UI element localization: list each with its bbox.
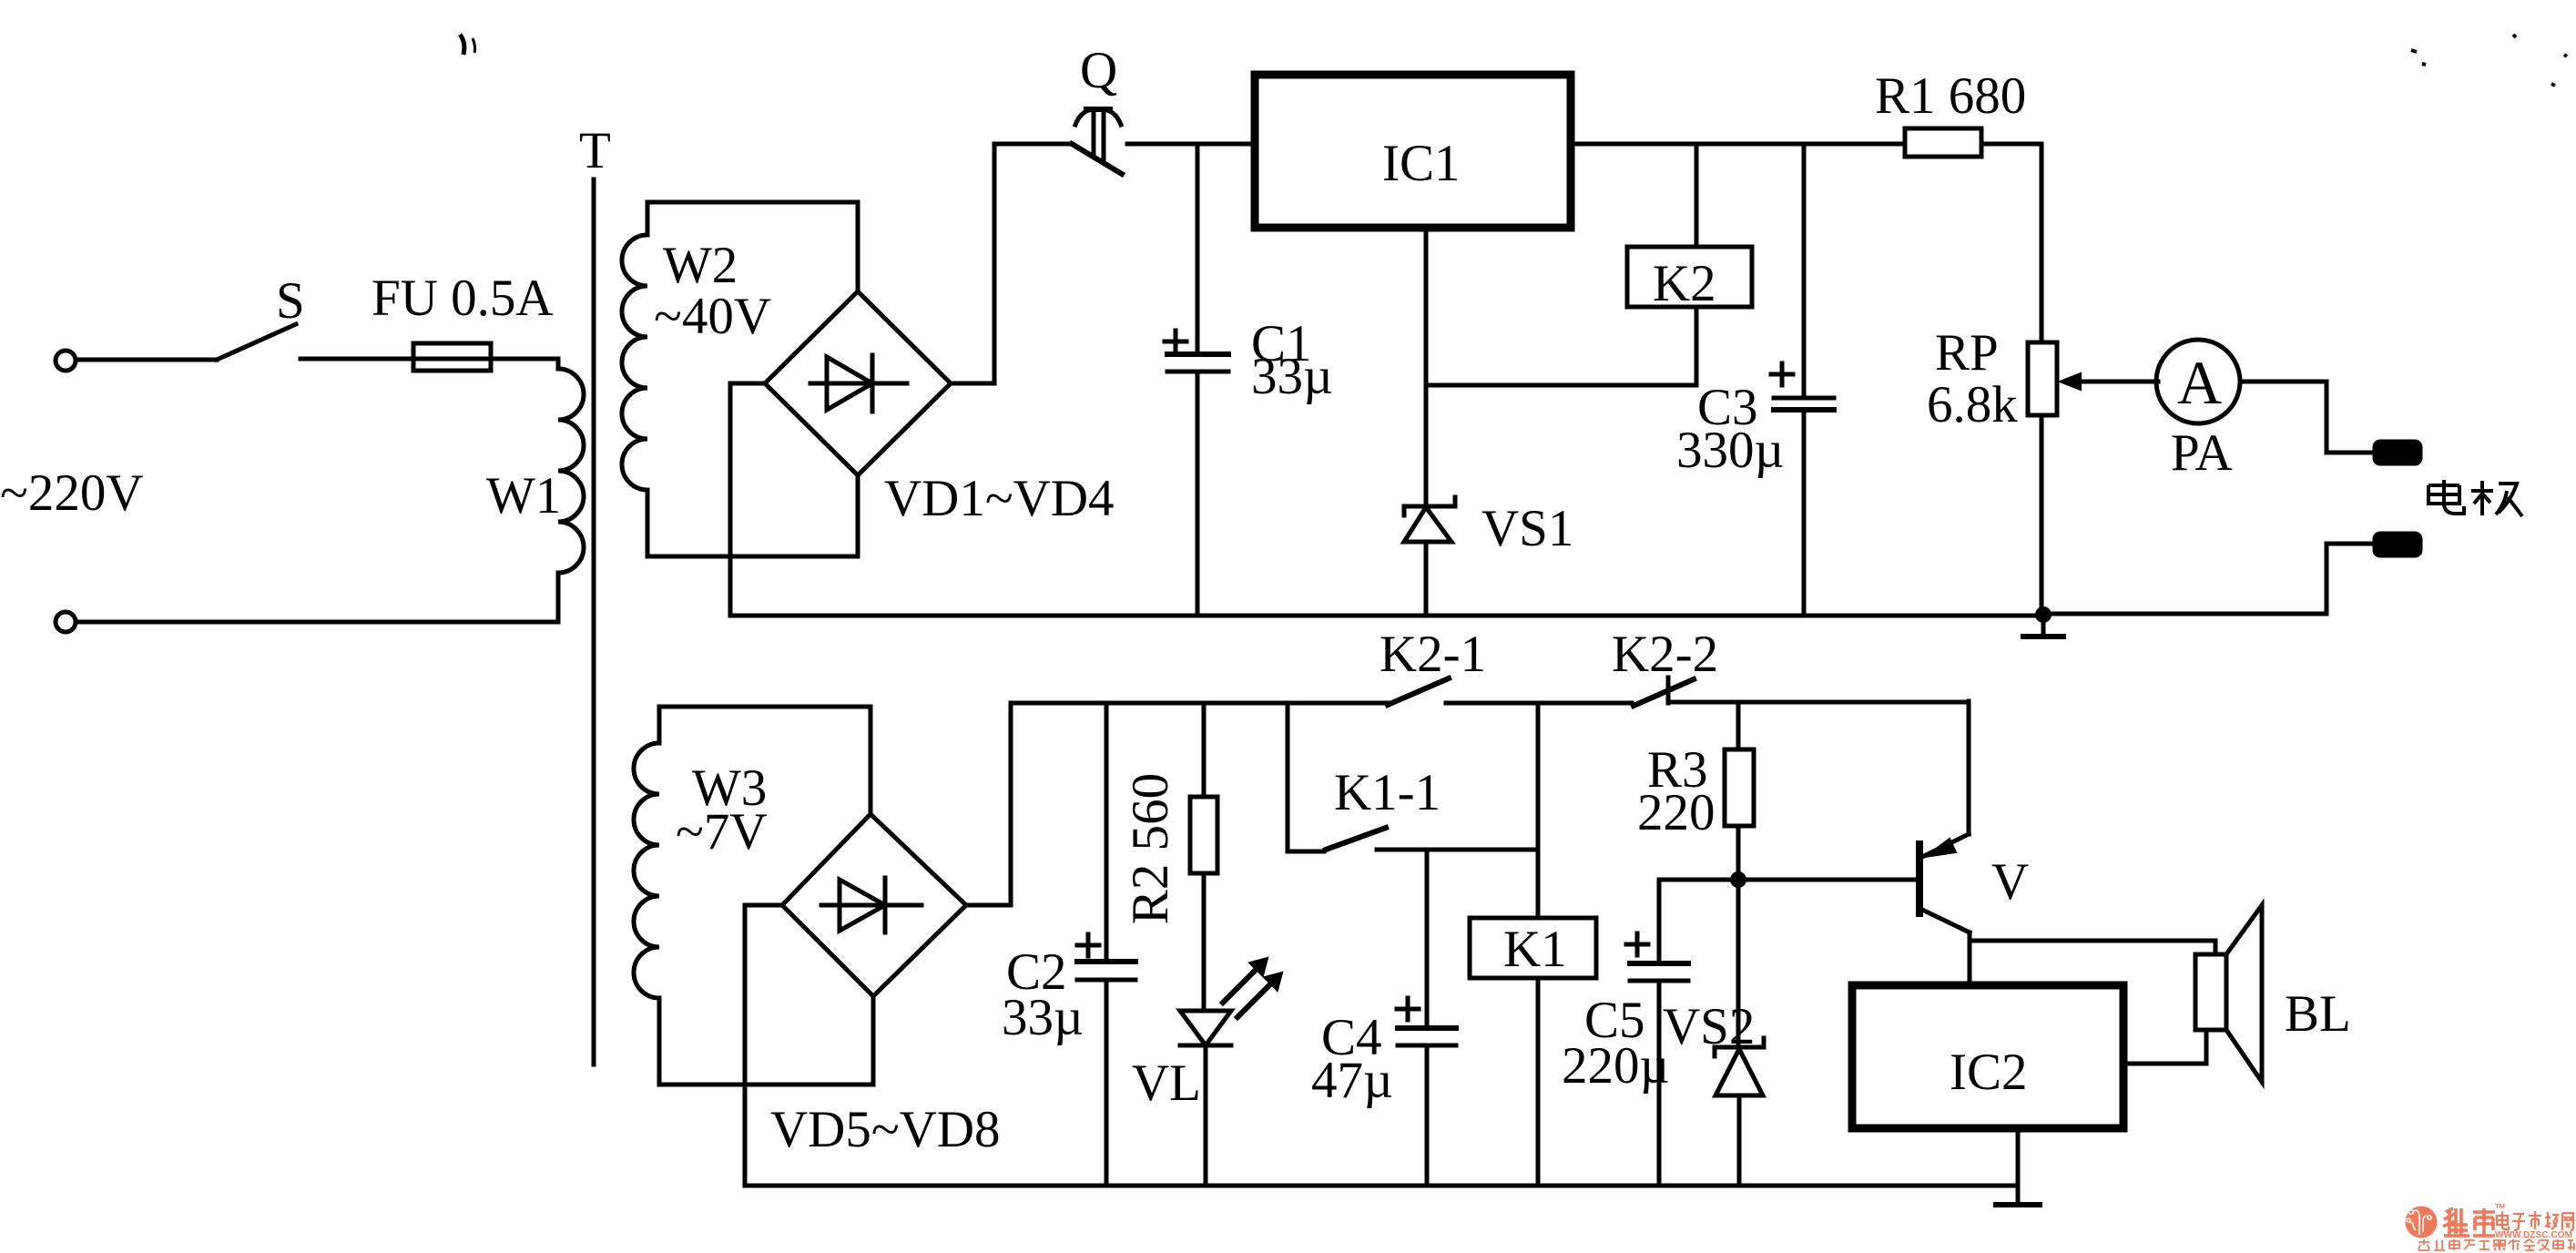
stray scan marks (460, 35, 2567, 86)
audio IC2 box (1852, 985, 2123, 1128)
wire (1659, 878, 1738, 882)
LED VL (1180, 960, 1280, 1186)
wire (730, 383, 765, 616)
wire (647, 475, 858, 556)
capacitor C3 (1771, 144, 1834, 616)
svg-text:S: S (276, 272, 305, 330)
svg-text:VD1~VD4: VD1~VD4 (884, 470, 1115, 527)
transformer secondary winding W3 (634, 707, 659, 1085)
svg-text:33µ: 33µ (1251, 348, 1333, 405)
svg-text:VD5~VD8: VD5~VD8 (770, 1101, 1001, 1158)
bridge rectifier VD5~VD8 (782, 814, 966, 996)
svg-text:K2: K2 (1653, 255, 1716, 312)
wire (K1-1 fixed side) (1377, 848, 1536, 852)
node (R3/C5/VS2/base junction) (1730, 871, 1746, 888)
svg-text:A: A (2177, 348, 2222, 417)
speaker BL (2195, 905, 2262, 1082)
ground (2023, 616, 2063, 637)
svg-text:~7V: ~7V (676, 803, 768, 861)
bridge rectifier VD1~VD4 (765, 291, 951, 475)
wire (IC1 pin to VS1) (1424, 228, 1429, 504)
svg-text:R1 680: R1 680 (1875, 67, 2026, 125)
wire (to speaker) (1970, 941, 2215, 954)
svg-text:T: T (579, 122, 611, 179)
svg-text:FU 0.5A: FU 0.5A (372, 270, 554, 327)
svg-text:K1-1: K1-1 (1334, 764, 1441, 821)
wire (1571, 142, 1905, 147)
wire (659, 996, 873, 1085)
wire (rail right of K2-2) (1668, 700, 1969, 705)
node (RP/ground junction) (2035, 606, 2052, 623)
ground (IC2) (1996, 1128, 2040, 1205)
resistor R1 (1905, 128, 1981, 157)
pushbutton switch Q (1072, 109, 1122, 174)
svg-text:R2 560: R2 560 (1122, 773, 1179, 924)
svg-text:K2-2: K2-2 (1612, 626, 1718, 683)
wire (76, 358, 217, 362)
relay contact K2-1 (1388, 678, 1449, 705)
capacitor C5 (1626, 880, 1688, 1186)
capacitor C2 (1077, 703, 1135, 1186)
relay contact K1-1 (1326, 828, 1386, 850)
wire (1536, 703, 1541, 918)
zener diode VS2 (1715, 1038, 1764, 1186)
transformer T core (592, 179, 596, 1065)
svg-text:220µ: 220µ (1562, 1037, 1669, 1095)
svg-text:220: 220 (1637, 784, 1716, 841)
wire (1981, 144, 2041, 342)
svg-text:PA: PA (2171, 424, 2233, 482)
svg-text:33µ: 33µ (1002, 989, 1084, 1046)
svg-text:Q: Q (1080, 42, 1117, 99)
svg-text:RP: RP (1935, 324, 1999, 382)
svg-text:V: V (1991, 853, 2029, 911)
wire (966, 703, 1011, 905)
svg-text:VL: VL (1132, 1054, 1201, 1112)
relay contact K2-2 (1634, 677, 1694, 706)
transformer primary winding W1 (558, 369, 584, 573)
svg-text:IC2: IC2 (1950, 1044, 2028, 1101)
electrode pad 2 (2375, 534, 2420, 555)
wire (2240, 382, 2375, 453)
svg-text:VS2: VS2 (1663, 998, 1755, 1055)
wire (659, 707, 871, 814)
ammeter PA (2156, 340, 2240, 423)
relay coil K1 (1470, 918, 1596, 978)
resistor R2 (1190, 797, 1217, 873)
svg-text:VS1: VS1 (1481, 500, 1573, 557)
wire (base wire) (1746, 878, 1916, 882)
wire (2043, 544, 2375, 614)
op-amp/regulator IC1 box (1255, 75, 1571, 228)
transistor V (1919, 701, 1970, 985)
relay coil K2 (1627, 247, 1752, 307)
transformer secondary winding W2 (622, 202, 647, 556)
svg-text:TM: TM (2495, 1202, 2505, 1210)
terminal J2 (220V input, bottom) (56, 612, 76, 632)
svg-text:W1: W1 (486, 467, 561, 525)
wire (1536, 978, 1541, 1186)
wire (bottom section bottom rail) (745, 1184, 2018, 1188)
wire (K1-1 left lead) (1288, 703, 1324, 851)
svg-text:WWW.DZSC.COM: WWW.DZSC.COM (2495, 1230, 2572, 1240)
svg-text:47µ: 47µ (1311, 1052, 1393, 1109)
wire (IC2 to speaker lower lead) (2123, 1030, 2206, 1064)
watermark logo 维库电子市场网 (2406, 1202, 2575, 1250)
svg-text:6.8k: 6.8k (1927, 376, 2018, 433)
wire (745, 905, 782, 1186)
wire (1202, 873, 1207, 1011)
wire (76, 573, 558, 622)
capacitor C4 (1397, 998, 1456, 1186)
wire (1736, 880, 1741, 1044)
electrode pad 1 (2375, 442, 2420, 464)
wire (1736, 702, 1741, 749)
wire (1425, 850, 1430, 1024)
label 电极 (electrodes) (2428, 480, 2522, 516)
wire (rail between K2-1 and K2-2) (1446, 701, 1632, 706)
wire (647, 202, 858, 291)
svg-text:330µ: 330µ (1676, 422, 1784, 479)
fuse FU 0.5A (413, 343, 491, 371)
svg-text:~40V: ~40V (654, 288, 771, 345)
svg-text:IC1: IC1 (1382, 135, 1461, 192)
resistor R3 (1725, 749, 1754, 826)
wire (1695, 144, 1699, 247)
wire (1202, 703, 1207, 797)
svg-text:~220V: ~220V (0, 464, 144, 522)
svg-text:W2: W2 (663, 237, 738, 294)
wire (top section bottom rail) (730, 614, 2043, 618)
wire (951, 144, 1072, 383)
svg-text:K2-1: K2-1 (1380, 626, 1486, 683)
potentiometer RP (2028, 342, 2158, 614)
svg-text:K1: K1 (1503, 921, 1567, 978)
wire (K2 coil branch) (1426, 307, 1696, 385)
terminal J1 (220V input, top) (56, 351, 76, 371)
svg-text:BL: BL (2285, 985, 2351, 1043)
switch S (217, 324, 296, 360)
wire (1736, 826, 1741, 880)
wire (556, 359, 561, 369)
wire (300, 357, 558, 362)
zener diode VS1 (1404, 497, 1455, 616)
capacitor C1 (1165, 144, 1228, 616)
wire (1127, 142, 1255, 147)
wire (bottom section top rail, left of K2-1) (1011, 701, 1388, 706)
